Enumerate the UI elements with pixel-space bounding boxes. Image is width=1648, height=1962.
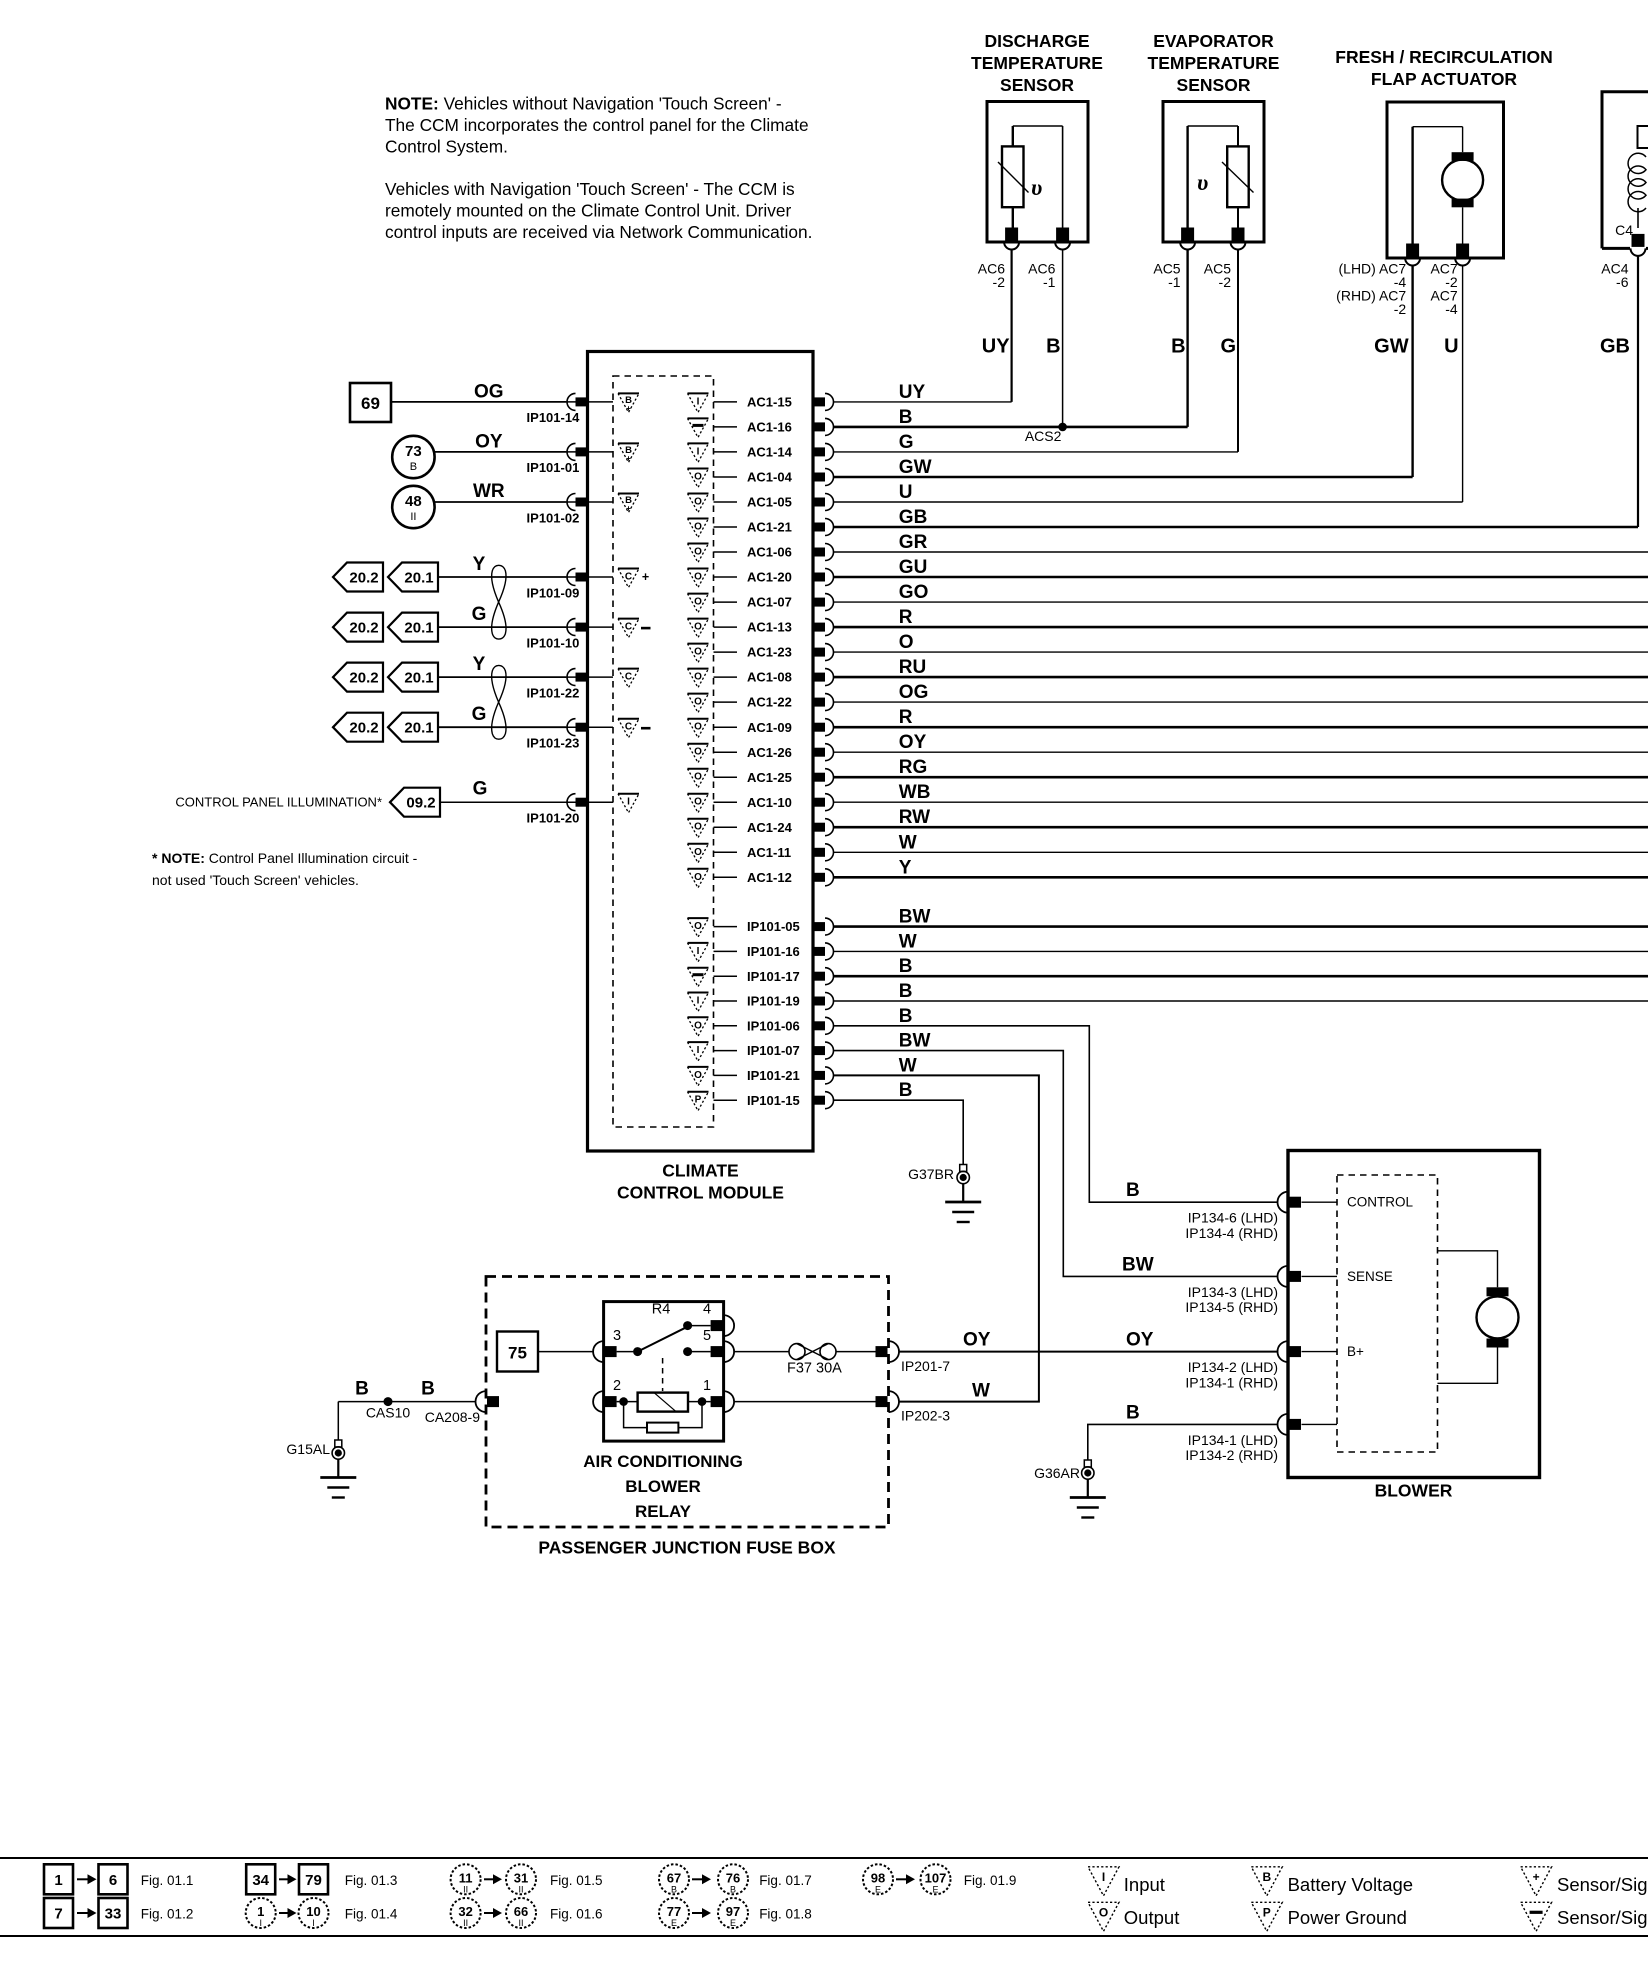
svg-text:I: I	[312, 1918, 315, 1928]
legend sensor/signal negative symbol	[1521, 1902, 1552, 1931]
svg-text:O: O	[694, 597, 702, 608]
svg-text:20.1: 20.1	[404, 670, 433, 687]
svg-text:R: R	[899, 707, 913, 728]
CCM pin AC1-07 symbol O	[688, 593, 709, 595]
relay pin 5	[711, 1346, 723, 1357]
svg-text:U: U	[1444, 336, 1458, 358]
svg-text:I: I	[697, 946, 700, 957]
wire GO from AC1-07	[834, 601, 1648, 603]
discharge temperature sensor box	[987, 102, 1088, 243]
svg-text:20.2: 20.2	[349, 620, 378, 637]
CCM pin AC1-23 symbol O	[688, 643, 709, 645]
CCM pin IP101-17 symbol -	[688, 967, 709, 969]
wire R from AC1-13	[834, 626, 1648, 629]
discharge temperature sensor title	[971, 31, 1103, 95]
relay switch arm	[638, 1326, 689, 1351]
svg-text:II: II	[463, 1918, 468, 1928]
evaporator temperature sensor title	[1148, 31, 1280, 95]
svg-text:10: 10	[306, 1904, 320, 1919]
climate control module box	[588, 352, 814, 1152]
fuse box pin CA208-9	[487, 1396, 499, 1407]
CCM pin IP101-22 symbol C	[618, 668, 639, 670]
CCM pin AC1-24	[813, 823, 825, 832]
note text top	[385, 94, 812, 243]
svg-text:P: P	[1263, 1905, 1271, 1919]
CCM pin IP101-23	[576, 723, 588, 732]
pin label AC5-1	[1153, 261, 1180, 290]
svg-text:-1: -1	[1168, 274, 1181, 290]
relay pin 3	[605, 1346, 617, 1357]
wire B from ground to CA208-9	[338, 1401, 475, 1403]
svg-text:O: O	[694, 747, 702, 758]
svg-text:OG: OG	[899, 682, 929, 703]
wire from coil to pin AC4-6	[1637, 208, 1639, 228]
twisted pair symbol rows IP101-09/10	[492, 565, 506, 602]
wire UY from AC1-15	[834, 401, 1012, 403]
evaporator temperature sensor box	[1163, 102, 1264, 243]
svg-text:B: B	[899, 956, 913, 977]
svg-text:SENSOR: SENSOR	[1000, 75, 1074, 95]
svg-text:Control System.: Control System.	[385, 137, 508, 157]
CCM pin IP101-21 symbol O	[688, 1066, 709, 1068]
CCM pin AC1-04 symbol O	[688, 468, 709, 470]
CCM pin AC1-22	[813, 698, 825, 707]
CCM pin IP101-23 symbol C-	[618, 718, 639, 720]
air conditioning blower relay box	[604, 1302, 724, 1442]
wire dashed box to motor top	[1438, 1251, 1498, 1288]
CCM pin IP101-20 symbol I	[618, 793, 639, 795]
svg-text:FRESH / RECIRCULATION: FRESH / RECIRCULATION	[1335, 47, 1552, 67]
svg-text:BW: BW	[899, 907, 931, 928]
svg-text:O: O	[694, 547, 702, 558]
svg-text:AIR CONDITIONING: AIR CONDITIONING	[583, 1452, 743, 1471]
wire RU from AC1-08	[834, 676, 1648, 679]
svg-text:II: II	[518, 1918, 523, 1928]
svg-text:Y: Y	[473, 654, 486, 675]
svg-text:O: O	[694, 847, 702, 858]
svg-text:WB: WB	[899, 782, 931, 803]
CCM pin AC1-21	[813, 523, 825, 532]
relay resistor parallel to coil	[624, 1402, 647, 1428]
CCM pin AC1-20 symbol O	[688, 568, 709, 570]
CCM pin IP101-07 symbol I	[688, 1041, 709, 1043]
svg-text:CONTROL: CONTROL	[1347, 1195, 1413, 1210]
svg-text:P: P	[695, 1095, 702, 1106]
svg-text:98: 98	[871, 1870, 885, 1885]
wire OY from 73 to IP101-01	[434, 451, 566, 453]
wire BW from IP101-05	[834, 925, 1648, 928]
ground G37BR	[960, 1165, 967, 1172]
svg-text:AC1-07: AC1-07	[747, 595, 792, 610]
wire OG from 69 to IP101-14	[391, 401, 566, 403]
svg-text:20.2: 20.2	[349, 670, 378, 687]
svg-text:I: I	[697, 446, 700, 457]
svg-text:Power Ground: Power Ground	[1288, 1907, 1407, 1928]
svg-text:-1: -1	[1043, 274, 1056, 290]
CCM pin AC1-05 symbol O	[688, 493, 709, 495]
wire G from AC1-14	[834, 451, 1239, 453]
wire B from IP101-06 to blower CONTROL	[834, 1026, 1278, 1202]
CCM pin AC1-04	[813, 473, 825, 482]
wire G to IP101-20	[439, 801, 566, 803]
svg-text:O: O	[694, 472, 702, 483]
svg-text:G: G	[1220, 336, 1236, 358]
svg-text:G: G	[473, 779, 488, 800]
wire OG from AC1-22	[834, 701, 1648, 703]
relay pin 4	[711, 1320, 723, 1331]
CCM pin AC1-12	[813, 873, 825, 882]
svg-text:R4: R4	[652, 1302, 671, 1318]
flap actuator box	[1387, 102, 1504, 258]
svg-text:C: C	[625, 672, 632, 683]
svg-text:IP134-4 (RHD): IP134-4 (RHD)	[1185, 1225, 1278, 1241]
CCM pin AC1-13	[813, 623, 825, 632]
fresh/recirculation flap actuator title	[1335, 47, 1552, 89]
svg-text:7: 7	[54, 1906, 62, 1923]
wire G from AC5-2 to CCM AC1-14	[1237, 250, 1239, 452]
svg-text:76: 76	[726, 1870, 740, 1885]
CCM pin IP101-10	[576, 623, 588, 632]
svg-text:107: 107	[925, 1870, 947, 1885]
wire down to ground G15AL	[337, 1402, 339, 1440]
svg-text:B: B	[1171, 336, 1185, 358]
svg-text:2: 2	[613, 1378, 621, 1394]
wire W from AC1-11	[834, 851, 1648, 853]
svg-text:67: 67	[667, 1870, 681, 1885]
svg-text:B: B	[1046, 336, 1060, 358]
svg-text:RW: RW	[899, 807, 930, 828]
svg-text:-2: -2	[1394, 301, 1407, 317]
wire pin 2 to coil	[617, 1401, 638, 1403]
wire relay pin 1 to IP202-3	[734, 1401, 876, 1403]
CCM pin IP101-09 symbol C+	[618, 568, 639, 570]
wire Y to CCM	[439, 576, 566, 578]
svg-text:AC1-11: AC1-11	[747, 845, 791, 860]
svg-text:AC1-14: AC1-14	[747, 445, 793, 460]
CCM pin IP101-14	[576, 397, 588, 406]
CCM pin AC1-26 symbol O	[688, 743, 709, 745]
svg-text:O: O	[694, 797, 702, 808]
svg-text:97: 97	[726, 1904, 740, 1919]
connector 69 square	[350, 383, 391, 422]
svg-text:IP101-09: IP101-09	[527, 585, 580, 600]
svg-text:AC1-21: AC1-21	[747, 520, 792, 535]
svg-text:IP101-01: IP101-01	[527, 460, 580, 475]
CCM pin IP101-09	[576, 573, 588, 582]
svg-text:6: 6	[109, 1872, 117, 1889]
CCM pin AC1-15 symbol I	[688, 392, 709, 394]
partial internal rectangle	[1638, 126, 1648, 148]
svg-text:11: 11	[459, 1870, 473, 1885]
legend circles 98 to 107 Fig. 01.9	[863, 1864, 893, 1894]
wire Y from AC1-12	[834, 876, 1648, 879]
svg-text:-2: -2	[1219, 274, 1232, 290]
svg-text:BLOWER: BLOWER	[1375, 1481, 1453, 1501]
legend circles 77 to 97 Fig. 01.8	[659, 1898, 689, 1928]
svg-text:+: +	[626, 503, 631, 513]
svg-text:Sensor/Sign: Sensor/Sign	[1557, 1907, 1648, 1928]
svg-text:W: W	[899, 832, 917, 853]
CCM pin IP101-14 symbol B	[618, 392, 639, 394]
discharge sensor pin AC6-2	[1005, 228, 1018, 241]
svg-text:GU: GU	[899, 557, 928, 578]
svg-text:IP101-23: IP101-23	[527, 736, 580, 751]
svg-text:O: O	[694, 822, 702, 833]
svg-text:CAS10: CAS10	[366, 1405, 411, 1421]
legend battery voltage symbol	[1251, 1867, 1282, 1896]
svg-text:AC1-05: AC1-05	[747, 495, 792, 510]
svg-text:O: O	[694, 921, 702, 932]
svg-text:IP101-20: IP101-20	[527, 811, 580, 826]
CCM pin AC1-22 symbol O	[688, 693, 709, 695]
wire R from AC1-09	[834, 726, 1648, 729]
svg-text:control inputs are received vi: control inputs are received via Network …	[385, 222, 812, 242]
fuse F37 30A	[789, 1344, 805, 1360]
svg-text:IP101-07: IP101-07	[747, 1043, 800, 1058]
svg-text:II: II	[463, 1884, 468, 1894]
legend squares 1 to 6 Fig. 01.1	[44, 1864, 73, 1894]
wire GU from AC1-20	[834, 576, 1648, 579]
svg-text:B: B	[1126, 1403, 1140, 1424]
svg-text:31: 31	[514, 1870, 528, 1885]
pin label AC6-1	[1028, 261, 1055, 290]
svg-text:W: W	[899, 1055, 917, 1076]
svg-text:O: O	[694, 622, 702, 633]
svg-text:Fig. 01.9: Fig. 01.9	[964, 1873, 1017, 1888]
svg-text:AC1-15: AC1-15	[747, 395, 792, 410]
CCM pin AC1-16 symbol -	[688, 417, 709, 419]
svg-text:GB: GB	[1600, 336, 1630, 358]
off-page arrow 20.1 row Y	[388, 563, 438, 592]
svg-text:-4: -4	[1445, 301, 1458, 317]
legend strip top rule	[0, 1857, 1648, 1859]
wire RG from AC1-25	[834, 776, 1648, 779]
wire G to CCM	[439, 626, 566, 628]
svg-text:O: O	[694, 872, 702, 883]
svg-text:I: I	[627, 797, 630, 808]
svg-text:34: 34	[252, 1872, 269, 1889]
wire fuse to IP201-7	[836, 1351, 877, 1353]
wire GR from AC1-06	[834, 551, 1648, 553]
blower pin IP134-1	[1289, 1419, 1301, 1430]
svg-text:IP134-1 (RHD): IP134-1 (RHD)	[1185, 1374, 1278, 1390]
ground G36AR	[1084, 1460, 1091, 1467]
svg-text:1: 1	[703, 1378, 711, 1394]
svg-text:I: I	[697, 1045, 700, 1056]
svg-text:O: O	[694, 672, 702, 683]
svg-text:G15AL: G15AL	[286, 1441, 330, 1457]
svg-text:77: 77	[667, 1904, 681, 1919]
svg-text:I: I	[697, 396, 700, 407]
wire W from IP101-16	[834, 950, 1648, 952]
legend circles 32 to 66 Fig. 01.6	[451, 1898, 481, 1928]
svg-text:IP134-1 (LHD): IP134-1 (LHD)	[1188, 1432, 1278, 1448]
climate control module title	[617, 1161, 784, 1203]
svg-text:1: 1	[257, 1904, 264, 1919]
svg-text:B+: B+	[1347, 1344, 1364, 1359]
off-page arrow 20.2 row Y	[333, 663, 383, 692]
svg-text:E: E	[730, 1918, 736, 1928]
CCM pin AC1-06	[813, 548, 825, 557]
svg-text:IP134-5 (RHD): IP134-5 (RHD)	[1185, 1299, 1278, 1315]
relay pin 2	[605, 1396, 617, 1407]
CCM pin AC1-07	[813, 598, 825, 607]
CCM pin AC1-23	[813, 648, 825, 657]
wire B from IP101-15 to ground G37BR	[834, 1100, 964, 1164]
off-page arrow 20.2 row G	[333, 613, 383, 642]
pin label IP134-2 (LHD) / IP134-1 (RHD)	[1185, 1359, 1278, 1390]
off-page arrow 20.2 row G	[333, 713, 383, 742]
svg-text:BW: BW	[899, 1031, 931, 1052]
note text control panel illumination	[152, 850, 418, 888]
svg-text:W: W	[899, 931, 917, 952]
wire U from AC1-05	[834, 501, 1463, 503]
CCM pin AC1-10	[813, 798, 825, 807]
flap actuator pin AC7 right	[1456, 244, 1469, 257]
svg-text:O: O	[1099, 1905, 1108, 1919]
svg-text:Fig. 01.5: Fig. 01.5	[550, 1873, 603, 1888]
wire B from IP101-17	[834, 975, 1648, 978]
wire B from IP101-19	[834, 1000, 1648, 1002]
svg-text:79: 79	[305, 1872, 322, 1889]
CCM pin IP101-02 symbol B	[618, 493, 639, 495]
legend input symbol	[1088, 1867, 1119, 1896]
svg-text:not used 'Touch Screen' vehicl: not used 'Touch Screen' vehicles.	[152, 872, 359, 888]
svg-text:Vehicles with Navigation 'Touc: Vehicles with Navigation 'Touch Screen' …	[385, 179, 795, 199]
blower pin IP134-3	[1289, 1271, 1301, 1282]
wire O from AC1-23	[834, 651, 1648, 653]
svg-text:66: 66	[514, 1904, 528, 1919]
svg-text:O: O	[694, 1020, 702, 1031]
svg-text:1: 1	[54, 1872, 62, 1889]
CCM pin IP101-06	[813, 1021, 825, 1030]
CCM pin IP101-20	[576, 798, 588, 807]
CCM pin IP101-10 symbol C-	[618, 618, 639, 620]
pin label IP134-3 (LHD) / IP134-5 (RHD)	[1185, 1284, 1278, 1315]
svg-text:GO: GO	[899, 582, 929, 603]
svg-text:GW: GW	[1374, 336, 1409, 358]
relay switch contact pin 5	[683, 1347, 692, 1356]
off-page arrow 20.1 row G	[388, 613, 438, 642]
svg-text:AC1-04: AC1-04	[747, 470, 793, 485]
CCM pin IP101-15	[813, 1096, 825, 1105]
svg-text:IP101-21: IP101-21	[747, 1068, 800, 1083]
svg-text:BW: BW	[1122, 1255, 1154, 1276]
svg-text:υ: υ	[1197, 170, 1208, 195]
svg-text:B: B	[899, 407, 913, 428]
CCM pin AC1-15	[813, 397, 825, 406]
svg-text:B: B	[410, 461, 417, 473]
wire B from AC6-1 to splice ACS2	[1062, 250, 1064, 427]
wire B from blower to ground G36AR	[1088, 1424, 1278, 1459]
svg-text:IP101-05: IP101-05	[747, 919, 800, 934]
svg-text:AC1-16: AC1-16	[747, 420, 792, 435]
wire OY from IP201-7 to blower B+	[899, 1351, 1278, 1353]
evaporator sensor pin AC5-1	[1181, 228, 1194, 241]
svg-text:G: G	[899, 432, 914, 453]
svg-text:Y: Y	[899, 857, 912, 878]
CCM pin AC1-10 symbol O	[688, 793, 709, 795]
svg-text:II: II	[410, 511, 416, 523]
svg-text:O: O	[694, 572, 702, 583]
wire WR from 48 to IP101-02	[434, 501, 566, 503]
svg-text:IP134-2 (LHD): IP134-2 (LHD)	[1188, 1359, 1278, 1375]
svg-text:R: R	[899, 607, 913, 628]
legend squares 34 to 79 Fig. 01.3	[246, 1864, 275, 1894]
wire BW from IP101-07 to blower SENSE	[834, 1051, 1278, 1277]
svg-text:3: 3	[613, 1328, 621, 1344]
svg-text:AC1-09: AC1-09	[747, 720, 792, 735]
CCM pin AC1-06 symbol O	[688, 543, 709, 545]
svg-text:E: E	[932, 1884, 938, 1894]
svg-text:O: O	[899, 632, 914, 653]
svg-text:B: B	[421, 1379, 435, 1400]
svg-text:+: +	[642, 570, 649, 584]
svg-text:I: I	[1102, 1870, 1105, 1884]
CCM pin AC1-14 symbol I	[688, 442, 709, 444]
svg-text:GB: GB	[899, 507, 928, 528]
svg-text:F37 30A: F37 30A	[787, 1361, 842, 1377]
CCM pin AC1-20	[813, 573, 825, 582]
svg-text:RG: RG	[899, 757, 928, 778]
svg-text:32: 32	[458, 1904, 472, 1919]
svg-text:E: E	[671, 1918, 677, 1928]
svg-text:B: B	[730, 1884, 736, 1894]
svg-text:II: II	[518, 1884, 523, 1894]
CCM pin IP101-02	[576, 498, 588, 507]
off-page arrow 20.2 row Y	[333, 563, 383, 592]
svg-text:69: 69	[361, 394, 380, 413]
svg-text:OY: OY	[1126, 1330, 1154, 1351]
svg-text:AC1-22: AC1-22	[747, 695, 792, 710]
svg-text:BLOWER: BLOWER	[625, 1477, 701, 1496]
svg-text:IP101-15: IP101-15	[747, 1093, 800, 1108]
blower inner dashed box	[1337, 1175, 1438, 1452]
legend circles 1 to 10 Fig. 01.4	[246, 1898, 276, 1928]
flap actuator pin AC7 left	[1406, 244, 1419, 257]
coil inside partial component	[1628, 153, 1646, 211]
svg-text:4: 4	[703, 1302, 711, 1318]
svg-text:W: W	[972, 1381, 990, 1402]
svg-text:Fig. 01.8: Fig. 01.8	[759, 1907, 812, 1922]
CCM pin IP101-21	[813, 1071, 825, 1080]
svg-text:NOTE: Vehicles without Navigat: NOTE: Vehicles without Navigation 'Touch…	[385, 94, 782, 114]
CCM pin AC1-08 symbol O	[688, 668, 709, 670]
svg-text:20.2: 20.2	[349, 720, 378, 737]
wire G to CCM	[439, 726, 566, 728]
CCM pin AC1-11 symbol O	[688, 843, 709, 845]
svg-text:IP134-6 (LHD): IP134-6 (LHD)	[1188, 1210, 1278, 1226]
svg-text:I: I	[697, 996, 700, 1007]
svg-text:Fig. 01.1: Fig. 01.1	[141, 1873, 194, 1888]
CCM pin IP101-16	[813, 947, 825, 956]
svg-text:Output: Output	[1124, 1907, 1180, 1928]
CCM pin AC1-05	[813, 498, 825, 507]
off-page arrow 20.1 row Y	[388, 663, 438, 692]
legend sensor/signal positive symbol	[1521, 1867, 1552, 1896]
svg-text:CLIMATE: CLIMATE	[662, 1161, 738, 1181]
svg-text:O: O	[694, 497, 702, 508]
blower box	[1288, 1151, 1540, 1478]
pin label AC5-2	[1204, 261, 1231, 290]
svg-text:IP101-19: IP101-19	[747, 994, 800, 1009]
relay switch contact to pin 4	[683, 1321, 692, 1330]
CCM pin AC1-09	[813, 723, 825, 732]
svg-text:TEMPERATURE: TEMPERATURE	[971, 53, 1103, 73]
svg-text:AC1-23: AC1-23	[747, 645, 792, 660]
pin label AC6-2	[978, 261, 1005, 290]
CCM pin AC1-25	[813, 773, 825, 782]
